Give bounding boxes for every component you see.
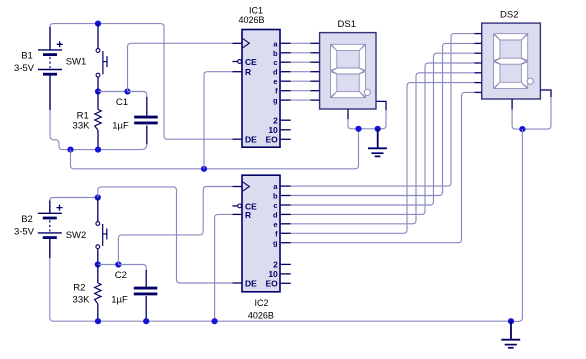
wire IC1 a-g to DS1 (291, 42, 311, 44)
svg-text:C1: C1 (116, 97, 128, 108)
svg-text:10: 10 (268, 125, 278, 135)
node C2 bottom (143, 318, 149, 324)
svg-text:IC2: IC2 (254, 298, 268, 308)
switch SW2 (66, 198, 107, 265)
svg-text:b: b (273, 192, 278, 201)
wire DS2 right common (522, 97, 551, 129)
svg-text:d: d (273, 68, 278, 77)
svg-text:DS2: DS2 (500, 10, 518, 21)
svg-text:2: 2 (273, 260, 278, 270)
svg-text:d: d (273, 210, 278, 219)
svg-text:1µF: 1µF (111, 294, 128, 305)
switch SW1 (66, 24, 107, 92)
wire DS1 right common (378, 110, 386, 129)
svg-text:b: b (273, 49, 278, 58)
node SW1/R1/C1 clock node (95, 88, 101, 94)
node battery+/SW1 junction (95, 21, 101, 27)
node DS1 common A (355, 126, 361, 132)
wire ground rail (R1 bottom) (71, 149, 99, 151)
display DS1 (311, 19, 387, 119)
node R1 bottom (95, 147, 101, 153)
wire ground rail bottom (50, 258, 511, 321)
wire clock node 2 to IC2 CLK (118, 187, 232, 265)
svg-text:DE: DE (245, 135, 257, 145)
svg-text:CE: CE (245, 57, 257, 67)
svg-text:SW1: SW1 (66, 57, 87, 68)
svg-text:g: g (273, 96, 278, 105)
svg-text:2: 2 (273, 115, 278, 125)
wire IC2 R to ground rail (215, 214, 233, 321)
wire clock node (98, 91, 128, 93)
resistor R1 33K (73, 92, 102, 150)
svg-text:B1: B1 (21, 51, 33, 62)
wire clock node 2 (98, 264, 119, 266)
wire DS1 bottom common (348, 119, 359, 129)
IC IC1 4026B decade counter (233, 6, 291, 148)
wire C1 bottom to ground rail (98, 144, 147, 150)
IC IC2 4026B decade counter (233, 175, 291, 320)
wire battery B2 + to bus (50, 198, 98, 201)
svg-text:g: g (273, 239, 278, 248)
node IC1 reset ground junction (201, 166, 207, 172)
wire B2 bus to IC2 DE (98, 187, 233, 283)
wire DS1 common junctions (359, 128, 378, 130)
svg-text:DS1: DS1 (338, 19, 356, 30)
svg-text:33K: 33K (73, 294, 91, 305)
resistor R2 33K (73, 265, 101, 322)
node IC2 reset ground junction (212, 318, 218, 324)
svg-text:3-5V: 3-5V (14, 63, 35, 74)
wire battery B1 - to ground rail (50, 110, 71, 150)
svg-text:C2: C2 (115, 270, 127, 281)
svg-text:EO: EO (266, 278, 279, 288)
wire clock node to IC1 CLK (128, 43, 233, 91)
ground GND1 (368, 129, 387, 157)
wire IC1 R to ground rail (204, 72, 233, 169)
node ground rail right (508, 318, 514, 324)
node DS2 common (519, 126, 525, 132)
svg-text:33K: 33K (73, 121, 91, 132)
node R2 bottom (95, 318, 101, 324)
node SW2/R2 clock node (95, 261, 101, 267)
svg-text:e: e (273, 220, 277, 229)
display DS2 (475, 10, 552, 110)
svg-text:DE: DE (245, 278, 257, 288)
svg-text:SW2: SW2 (66, 230, 87, 241)
wire DS2 bottom common (512, 110, 522, 130)
svg-text:B2: B2 (21, 214, 33, 225)
svg-text:3-5V: 3-5V (14, 227, 35, 238)
battery B2 (14, 201, 63, 259)
wire DS2 common to ground (511, 129, 522, 321)
capacitor C1 1uF (112, 92, 157, 145)
svg-text:R2: R2 (73, 282, 85, 293)
node C2 top (115, 261, 121, 267)
svg-text:e: e (273, 77, 277, 86)
svg-text:IC1: IC1 (249, 6, 263, 16)
wire IC2 a-g staircase to DS2 (291, 34, 475, 187)
svg-text:1µF: 1µF (112, 121, 129, 132)
node DS1 common B (375, 126, 381, 132)
svg-text:c: c (273, 201, 277, 210)
svg-text:c: c (273, 58, 277, 67)
wire battery B1 + to top bus (50, 24, 233, 140)
node ground rail left (67, 147, 73, 153)
node C1 top (124, 88, 130, 94)
svg-text:R: R (245, 67, 251, 77)
svg-text:R: R (245, 210, 251, 220)
svg-text:EO: EO (266, 135, 279, 145)
svg-text:4026B: 4026B (238, 15, 264, 25)
battery B1 (14, 27, 63, 110)
node battery B2/SW2 junction (95, 194, 101, 200)
ground GND2 (501, 321, 520, 348)
capacitor C2 1uF (111, 265, 157, 322)
svg-text:4026B: 4026B (248, 311, 274, 321)
wire ground rail to DS1 common (71, 129, 359, 169)
